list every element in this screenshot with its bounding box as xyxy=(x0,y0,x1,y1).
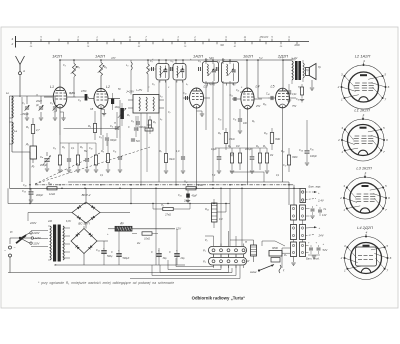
svg-text:L2: L2 xyxy=(106,85,110,89)
svg-text:świat: świat xyxy=(250,270,257,274)
svg-text:10μF: 10μF xyxy=(211,148,217,151)
svg-text:C₃: C₃ xyxy=(63,64,66,67)
svg-text:R₈: R₈ xyxy=(228,145,231,148)
svg-text:R₁: R₁ xyxy=(26,125,29,129)
svg-text:220: 220 xyxy=(47,220,53,223)
svg-text:R₂: R₂ xyxy=(69,92,72,95)
svg-text:C₉: C₉ xyxy=(152,84,155,86)
svg-text:R₁₁: R₁₁ xyxy=(48,181,52,185)
svg-text:1Б2П: 1Б2П xyxy=(243,54,253,59)
svg-text:54V: 54V xyxy=(323,248,328,252)
svg-text:2МΩ: 2МΩ xyxy=(197,184,203,187)
svg-text:C₉: C₉ xyxy=(53,147,56,150)
svg-text:500μF: 500μF xyxy=(123,257,130,260)
svg-text:Odbiornik radiowy „Turta“: Odbiornik radiowy „Turta“ xyxy=(192,296,246,301)
svg-text:Пₑ: Пₑ xyxy=(324,208,327,211)
svg-text:10кΩ: 10кΩ xyxy=(144,238,150,241)
svg-text:C₁: C₁ xyxy=(22,101,25,105)
svg-text:C₁₀: C₁₀ xyxy=(232,84,235,86)
svg-text:C₉: C₉ xyxy=(198,60,201,63)
svg-text:300pF: 300pF xyxy=(110,140,117,142)
svg-text:C₇: C₇ xyxy=(168,112,171,114)
svg-text:Pr: Pr xyxy=(10,230,13,234)
svg-text:Тр₂: Тр₂ xyxy=(292,59,296,61)
svg-text:Др: Др xyxy=(119,221,124,225)
svg-text:14V: 14V xyxy=(322,214,327,217)
svg-text:2022: 2022 xyxy=(35,99,42,103)
svg-text:L₆: L₆ xyxy=(218,60,220,63)
svg-text:C₁₆: C₁₆ xyxy=(282,89,285,92)
svg-text:100pF: 100pF xyxy=(310,155,317,158)
svg-text:2,4V: 2,4V xyxy=(317,199,325,203)
svg-text:39кΩ: 39кΩ xyxy=(169,158,175,161)
svg-text:L1 1К2П: L1 1К2П xyxy=(354,108,369,113)
svg-text:R₄: R₄ xyxy=(104,66,107,69)
svg-text:Zw: Zw xyxy=(136,242,140,245)
svg-text:3900: 3900 xyxy=(292,156,298,159)
svg-text:М₁: М₁ xyxy=(263,145,266,148)
svg-text:П₂: П₂ xyxy=(161,204,164,207)
svg-text:ВС-30-П: ВС-30-П xyxy=(78,222,90,226)
svg-text:P₁: P₁ xyxy=(203,249,206,253)
svg-text:1К2П: 1К2П xyxy=(52,54,62,59)
svg-text:2000: 2000 xyxy=(239,92,246,94)
svg-text:0,01: 0,01 xyxy=(292,94,297,96)
svg-text:C₈: C₈ xyxy=(171,60,174,63)
svg-text:C₂₁: C₂₁ xyxy=(178,194,182,197)
svg-text:C₂₂: C₂₂ xyxy=(96,248,100,252)
svg-text:5Д4: 5Д4 xyxy=(209,83,214,86)
svg-text:R₁₀: R₁₀ xyxy=(281,150,285,153)
svg-text:2: 2 xyxy=(339,196,342,200)
svg-text:5Д: 5Д xyxy=(230,155,233,157)
svg-text:3МΩ: 3МΩ xyxy=(275,138,280,141)
svg-text:Ф₂: Ф₂ xyxy=(222,58,225,61)
svg-text:2: 2 xyxy=(337,85,340,89)
svg-text:~: ~ xyxy=(14,246,16,250)
svg-text:L5: L5 xyxy=(271,85,275,89)
svg-text:L3 1К2П: L3 1К2П xyxy=(356,166,371,171)
svg-text:250 kHz: 250 kHz xyxy=(259,36,270,39)
svg-text:П: П xyxy=(114,122,116,125)
svg-text:C₅: C₅ xyxy=(110,124,113,128)
svg-text:R₁₂: R₁₂ xyxy=(184,181,188,184)
svg-text:ДВ: ДВ xyxy=(53,111,58,113)
svg-text:400μF: 400μF xyxy=(245,148,252,151)
svg-text:2Д2П: 2Д2П xyxy=(277,54,288,59)
svg-text:R₁₀: R₁₀ xyxy=(264,132,268,135)
svg-text:J=25V: J=25V xyxy=(126,90,135,94)
svg-text:220V: 220V xyxy=(29,221,36,225)
svg-text:1А2П: 1А2П xyxy=(193,54,203,59)
svg-text:L4 2Д2П: L4 2Д2П xyxy=(357,225,373,230)
svg-text:С₁₇: С₁₇ xyxy=(283,164,286,167)
svg-text:2: 2 xyxy=(11,42,14,46)
svg-text:0,01: 0,01 xyxy=(287,94,292,96)
svg-text:4,7: 4,7 xyxy=(36,128,40,132)
svg-text:495pF: 495pF xyxy=(40,164,48,167)
svg-text:R₅: R₅ xyxy=(80,146,83,149)
svg-text:15кΩ: 15кΩ xyxy=(229,138,235,141)
svg-text:C₁₁: C₁₁ xyxy=(233,118,236,121)
svg-text:C₂₀: C₂₀ xyxy=(23,184,27,187)
svg-text:27кΩ: 27кΩ xyxy=(164,214,171,217)
svg-text:C₂: C₂ xyxy=(50,101,53,105)
svg-text:110V: 110V xyxy=(33,241,39,245)
svg-text:C₁₀: C₁₀ xyxy=(89,147,93,150)
svg-text:2000: 2000 xyxy=(293,44,300,47)
svg-text:25V: 25V xyxy=(255,105,261,108)
svg-text:П: П xyxy=(245,240,247,244)
svg-text:L₈: L₈ xyxy=(160,119,162,121)
svg-text:Л: Л xyxy=(35,95,38,97)
svg-text:C₁₄: C₁₄ xyxy=(266,93,269,96)
svg-text:R₇: R₇ xyxy=(127,113,130,117)
svg-text:C₆: C₆ xyxy=(131,120,134,123)
svg-text:R₃: R₃ xyxy=(77,66,80,69)
svg-text:C₁₃: C₁₃ xyxy=(218,119,221,121)
svg-text:20μ: 20μ xyxy=(180,257,186,260)
svg-text:P₂: P₂ xyxy=(203,260,206,264)
svg-text:C₁₁: C₁₁ xyxy=(113,150,116,153)
svg-text:Бат. жар.: Бат. жар. xyxy=(309,185,322,189)
svg-text:127V: 127V xyxy=(35,236,41,240)
svg-text:75V: 75V xyxy=(292,105,297,108)
svg-text:C₁₅: C₁₅ xyxy=(296,98,299,101)
svg-text:C₂₅: C₂₅ xyxy=(310,148,314,151)
svg-text:R₁₄: R₁₄ xyxy=(205,208,209,211)
svg-text:400pF: 400pF xyxy=(36,194,44,197)
svg-text:Д₂: Д₂ xyxy=(31,164,35,168)
svg-text:C₁₂: C₁₂ xyxy=(230,94,233,97)
svg-text:СВ: СВ xyxy=(90,109,94,111)
svg-text:1М: 1М xyxy=(270,155,273,157)
svg-text:R₄: R₄ xyxy=(62,146,65,149)
svg-text:P₁: P₁ xyxy=(205,239,208,242)
svg-text:pF: pF xyxy=(35,104,39,107)
svg-text:Д₁: Д₁ xyxy=(25,142,29,146)
svg-text:2: 2 xyxy=(337,138,340,142)
svg-text:~150pF: ~150pF xyxy=(20,112,29,116)
svg-text:L3: L3 xyxy=(204,85,208,89)
svg-text:6800: 6800 xyxy=(272,246,278,250)
svg-text:1А2П: 1А2П xyxy=(95,54,105,59)
svg-text:L2 1А2П: L2 1А2П xyxy=(355,54,371,59)
svg-text:~: ~ xyxy=(4,249,6,253)
svg-text:Гр: Гр xyxy=(318,65,321,69)
svg-text:12кΩ: 12кΩ xyxy=(49,192,55,196)
svg-text:5,2: 5,2 xyxy=(259,56,263,60)
svg-text:Pₐ: Pₐ xyxy=(284,253,287,257)
svg-text:L₄: L₄ xyxy=(160,95,162,98)
svg-text:Cₐ: Cₐ xyxy=(40,155,43,159)
svg-text:2: 2 xyxy=(340,256,343,260)
svg-text:Lo: Lo xyxy=(6,91,10,95)
svg-text:L4: L4 xyxy=(256,85,260,89)
svg-text:C₄: C₄ xyxy=(78,99,81,102)
svg-text:5М: 5М xyxy=(84,151,87,153)
svg-text:R₆: R₆ xyxy=(101,150,104,153)
svg-text:C: C xyxy=(169,251,171,254)
svg-text:C: C xyxy=(128,126,130,129)
svg-text:40μF: 40μF xyxy=(192,195,198,198)
svg-text:C: C xyxy=(151,251,153,254)
svg-text:I–ЛЧ: I–ЛЧ xyxy=(136,88,142,92)
svg-text:220V: 220V xyxy=(32,231,39,235)
svg-text:Ф₁: Ф₁ xyxy=(205,58,208,61)
svg-text:L₃: L₃ xyxy=(126,64,128,67)
svg-text:C₁₀: C₁₀ xyxy=(183,92,187,95)
svg-text:R₂: R₂ xyxy=(88,124,91,128)
svg-text:L1: L1 xyxy=(50,85,54,89)
svg-text:АТУ: АТУ xyxy=(110,56,116,60)
svg-text:500μ: 500μ xyxy=(107,255,113,258)
svg-text:1М: 1М xyxy=(219,218,222,221)
svg-text:La: La xyxy=(14,129,18,133)
svg-text:R₆: R₆ xyxy=(252,121,255,123)
svg-text:R₇: R₇ xyxy=(159,150,162,153)
svg-text:C₅: C₅ xyxy=(99,136,102,139)
svg-text:L₇: L₇ xyxy=(186,84,188,86)
svg-text:100μ: 100μ xyxy=(115,107,121,109)
svg-text:30μ: 30μ xyxy=(163,257,168,260)
svg-text:1М: 1М xyxy=(236,145,239,148)
svg-text:R₉: R₉ xyxy=(218,132,221,135)
svg-text:* przy ogniwode R₁ mniejsz: * przy ogniwode R₁ mniejszće wartośći mn… xyxy=(38,281,174,285)
svg-text:4700: 4700 xyxy=(81,90,87,93)
svg-text:C₂₁: C₂₁ xyxy=(236,90,240,92)
svg-text:A: A xyxy=(22,69,25,73)
svg-text:R₃: R₃ xyxy=(153,121,156,124)
svg-text:R₁₅: R₁₅ xyxy=(263,104,266,106)
svg-text:R₉: R₉ xyxy=(256,145,259,148)
svg-text:C: C xyxy=(111,251,113,254)
svg-text:6,3V: 6,3V xyxy=(66,220,71,223)
